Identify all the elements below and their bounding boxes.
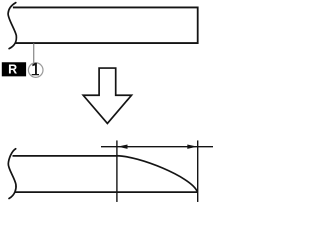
top bar profile — [13, 7, 198, 43]
bottom break line (squiggle) — [8, 149, 16, 199]
dimension line — [101, 146, 214, 148]
leader line — [33, 43, 35, 63]
label box R — [2, 62, 26, 76]
big down arrow — [83, 68, 131, 123]
tapered curve — [117, 156, 197, 192]
extension line right — [197, 140, 199, 202]
svg-text:R: R — [8, 63, 17, 77]
extension line left — [116, 140, 118, 202]
arrowhead left — [118, 144, 128, 148]
circled 1 — [28, 63, 43, 78]
top break line (squiggle) — [8, 3, 16, 49]
bottom bar bottom edge — [15, 191, 198, 193]
arrowhead right — [187, 144, 197, 148]
bottom bar profile top edge — [13, 155, 117, 157]
